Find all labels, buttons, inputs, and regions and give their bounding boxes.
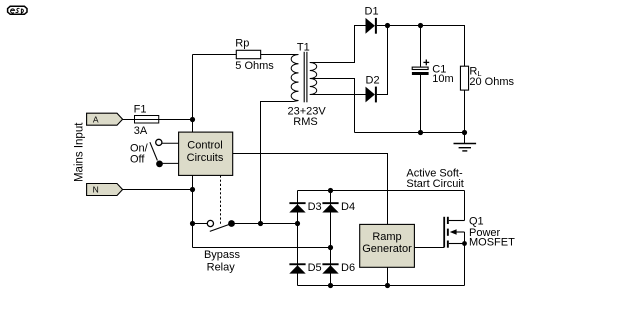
svg-text:F1: F1 — [134, 103, 147, 115]
ramp generator box U2 — [360, 224, 415, 267]
svg-text:N: N — [93, 185, 99, 195]
wire bridge bottom rail — [298, 285, 465, 287]
junction C1 top — [418, 23, 423, 28]
wire Rp row left — [193, 54, 237, 56]
svg-text:5 Ohms: 5 Ohms — [235, 60, 274, 72]
junction Q1 source/body — [462, 241, 467, 246]
wire junction up to Rp row — [192, 55, 194, 120]
relay actuation dashed link — [220, 175, 222, 225]
wire secondary bottom to D2 — [310, 94, 366, 96]
wire secondary centre tap to bottom rail — [310, 79, 355, 133]
svg-text:D1: D1 — [365, 6, 379, 18]
capacitor C1 — [412, 26, 429, 133]
svg-text:D2: D2 — [366, 75, 380, 87]
junction ramp bottom — [385, 283, 390, 288]
diode D6 — [322, 263, 338, 273]
wire N to junction — [123, 189, 193, 191]
diode D4 — [322, 202, 338, 212]
wire primary bottom to relay column — [261, 101, 299, 224]
wire D1 to junction — [377, 25, 388, 27]
fuse F1 — [135, 116, 159, 124]
wire top rail C1 to RL — [421, 26, 465, 67]
svg-text:T1: T1 — [297, 42, 310, 54]
wire ramp output to gate — [414, 247, 444, 249]
wire Q1 drain to top rail — [464, 191, 466, 221]
junction bridge right midpoint — [328, 245, 333, 250]
junction bridge top — [328, 188, 333, 193]
terminal A — [87, 113, 123, 125]
junction C1 bottom — [418, 130, 423, 135]
relay RLY1 bypass contact — [193, 220, 235, 231]
wire control to ramp generator — [233, 154, 388, 225]
diode D2 — [366, 87, 377, 103]
junction relay left — [190, 221, 195, 226]
svg-text:Control: Control — [187, 140, 222, 152]
junction bridge left midpoint — [295, 221, 300, 226]
svg-text:Bypass: Bypass — [204, 249, 241, 261]
transformer T1 primary winding — [291, 55, 298, 101]
wire junction down to control box — [192, 120, 194, 133]
junction A/control — [190, 117, 195, 122]
svg-text:Generator: Generator — [362, 243, 412, 255]
svg-text:10m: 10m — [432, 73, 453, 85]
ground — [454, 133, 477, 151]
wire top rail to C1 — [388, 25, 421, 27]
diode D1 — [366, 18, 377, 34]
svg-text:Ramp: Ramp — [372, 231, 401, 243]
svg-text:3A: 3A — [134, 125, 148, 137]
transformer T1 core — [303, 52, 305, 103]
transformer T1 secondary winding — [310, 63, 317, 95]
wire D2 cathode up to junction — [377, 26, 388, 95]
svg-text:Rp: Rp — [235, 38, 249, 50]
control circuits box U1 — [179, 132, 233, 175]
svg-text:Mains Input: Mains Input — [73, 122, 85, 182]
junction RL bottom — [462, 130, 467, 135]
wire relay to bridge left — [232, 223, 298, 225]
resistor RL — [460, 66, 468, 132]
svg-text:RMS: RMS — [293, 116, 317, 128]
diode D5 — [289, 263, 305, 273]
wire bridge left leg — [297, 191, 299, 286]
wire ramp bottom to rail — [387, 267, 389, 285]
diode D3 — [289, 202, 305, 212]
resistor Rp — [236, 50, 260, 58]
switch SW1 On/Off — [150, 139, 179, 167]
wire N column to bridge right midpoint — [193, 247, 331, 249]
wire control box down left column — [192, 175, 194, 247]
junction bridge bottom — [328, 283, 333, 288]
svg-text:A: A — [93, 114, 99, 124]
svg-text:Circuits: Circuits — [187, 152, 224, 164]
svg-text:D3: D3 — [308, 201, 322, 213]
wire bottom rail secondary — [355, 132, 465, 134]
terminal N — [87, 184, 123, 196]
svg-text:MOSFET: MOSFET — [469, 236, 515, 248]
junction N — [190, 187, 195, 192]
junction primary return — [258, 221, 263, 226]
svg-text:D5: D5 — [308, 262, 322, 274]
svg-text:Q1: Q1 — [469, 216, 484, 228]
svg-text:Off: Off — [130, 154, 145, 166]
wire Q1 source to bottom rail — [464, 244, 466, 286]
svg-text:Start Circuit: Start Circuit — [406, 178, 463, 190]
junction D1/D2 cathodes — [385, 23, 390, 28]
wire Rp to transformer primary — [261, 54, 299, 56]
svg-text:D6: D6 — [341, 262, 355, 274]
transistor Q1 MOSFET — [443, 217, 464, 248]
svg-text:D4: D4 — [341, 201, 355, 213]
ESP logo — [8, 6, 27, 14]
wire bridge top rail — [298, 190, 465, 192]
svg-text:20 Ohms: 20 Ohms — [469, 76, 514, 88]
wire secondary top to D1 — [310, 26, 366, 63]
wire bridge right leg — [330, 191, 332, 286]
wire A to fuse — [123, 119, 193, 121]
svg-text:Relay: Relay — [207, 261, 236, 273]
